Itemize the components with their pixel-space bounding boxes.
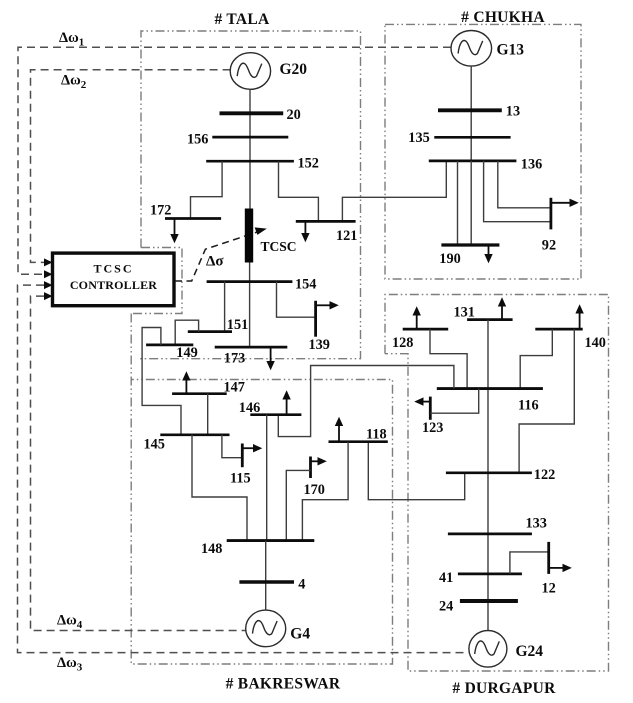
bus 154 xyxy=(207,280,293,283)
svg-text:115: 115 xyxy=(230,470,251,486)
load arrow at bus 92 xyxy=(551,199,579,207)
wire bus149 to bus145 inter-area xyxy=(142,328,181,435)
svg-text:G20: G20 xyxy=(280,61,308,78)
wire bus152 to bus172 xyxy=(191,161,223,218)
wire bus118 to bus122 inter-area xyxy=(368,442,464,500)
wire bus146 to bus148 xyxy=(266,415,268,541)
load arrow at bus 190 xyxy=(484,245,492,263)
svg-text:# CHUKHA: # CHUKHA xyxy=(461,9,545,26)
net Δω3 dashed loop: G24 to controller input 3 xyxy=(18,285,470,652)
svg-text:# DURGAPUR: # DURGAPUR xyxy=(452,680,556,697)
bus 190 xyxy=(441,243,499,246)
bus 116 xyxy=(437,387,543,390)
svg-text:# TALA: # TALA xyxy=(214,11,270,28)
wire bus149 to bus151 staircase xyxy=(175,320,198,345)
bus 118 xyxy=(329,440,388,443)
svg-text:128: 128 xyxy=(392,335,413,351)
wire bus118 to bus148 xyxy=(302,442,348,541)
svg-text:156: 156 xyxy=(187,131,208,147)
wire bus136 to bus92 (circuit 2) xyxy=(498,161,550,208)
bus 128 xyxy=(403,328,449,331)
svg-text:149: 149 xyxy=(176,345,197,361)
wire TCSC to bus 154 and bus 173 xyxy=(249,263,251,348)
net Δσ dashed control output to TCSC xyxy=(175,231,259,281)
bus 20 xyxy=(220,111,284,115)
wire bus136 to bus190 (circuit 1) xyxy=(457,161,459,245)
TCSC series capacitor bar xyxy=(245,209,253,263)
gen arrow up at bus 147 xyxy=(182,371,190,394)
bus 13 xyxy=(438,108,502,112)
load arrow at bus 121 xyxy=(301,221,309,242)
svg-text:131: 131 xyxy=(454,304,475,320)
wire bus145 to bus148 xyxy=(192,435,247,541)
svg-text:145: 145 xyxy=(144,436,165,452)
svg-text:190: 190 xyxy=(439,251,460,267)
bus 135 xyxy=(434,136,510,139)
svg-text:G4: G4 xyxy=(290,625,310,642)
bus 139 (load bar) xyxy=(314,301,317,337)
svg-text:20: 20 xyxy=(287,107,301,123)
svg-text:133: 133 xyxy=(526,515,547,531)
svg-text:G13: G13 xyxy=(497,42,525,59)
load arrow at bus 123 (points left) xyxy=(414,397,430,405)
bus 170 (load bar) xyxy=(309,457,312,479)
bus 147 xyxy=(172,392,227,395)
bus 173 xyxy=(215,346,288,349)
generator G4 xyxy=(246,610,286,647)
bus 121 xyxy=(296,220,356,223)
svg-text:152: 152 xyxy=(298,155,319,171)
svg-text:122: 122 xyxy=(534,467,555,483)
svg-text:135: 135 xyxy=(408,130,429,146)
wire bus154 to bus151 xyxy=(224,282,226,332)
wire bus147 to bus145 xyxy=(207,394,209,435)
bus 92 (load bar) xyxy=(550,198,553,230)
controller input arrowhead 4 xyxy=(44,292,53,300)
svg-text:172: 172 xyxy=(150,203,171,219)
svg-text:TCSC: TCSC xyxy=(93,262,133,276)
area box TALA (dash-dot-dot border with jog around controller) xyxy=(131,31,360,359)
net Δω2 dashed loop: G20 to controller input 1 xyxy=(31,70,231,263)
bus 131 xyxy=(467,318,512,321)
wire bus140 to bus116 xyxy=(520,329,552,389)
svg-text:146: 146 xyxy=(239,400,260,416)
load arrow at bus 139 xyxy=(316,301,339,309)
Δσ arrowhead at TCSC xyxy=(255,227,267,235)
load arrow at bus 12 xyxy=(549,564,572,572)
gen arrow up at bus 131 xyxy=(498,297,506,319)
wire bus152 to bus121 xyxy=(279,161,319,221)
net Δω4 dashed loop: G4 to controller input 4 xyxy=(31,296,246,630)
controller input arrowhead 3 xyxy=(44,281,53,289)
svg-text:12: 12 xyxy=(542,581,556,597)
bus 151 xyxy=(188,330,232,333)
wire bus128 to bus116 xyxy=(430,329,467,389)
controller input arrowhead 2 xyxy=(44,270,53,278)
svg-text:41: 41 xyxy=(439,570,453,586)
wire bus121 to bus136 interconnect xyxy=(342,161,446,222)
bus 133 xyxy=(448,533,532,536)
load arrow at bus 170 xyxy=(311,457,327,465)
svg-text:139: 139 xyxy=(309,337,330,353)
wire bus170 to bus148 xyxy=(286,470,310,540)
bus 156 xyxy=(212,136,288,139)
wire bus131 through 116,122,133,41,24 to G24 xyxy=(487,320,489,631)
wire bus148 to bus4 to G4 xyxy=(265,541,267,611)
svg-text:147: 147 xyxy=(224,379,245,395)
svg-text:Δσ: Δσ xyxy=(206,254,224,270)
wire bus146 to bus116 inter-area xyxy=(278,366,454,437)
generator G13 xyxy=(451,31,492,67)
wire bus140 to bus122 xyxy=(519,329,574,473)
svg-text:24: 24 xyxy=(439,598,453,614)
bus 140 xyxy=(535,328,582,331)
gen arrow up at bus 140 xyxy=(575,304,583,329)
net Δω1 dashed loop: G13 to controller input 2 xyxy=(18,47,451,274)
bus 4 xyxy=(239,580,294,584)
bus 41 xyxy=(458,573,522,576)
svg-text:TCSC: TCSC xyxy=(261,239,297,254)
load arrow at bus 173 xyxy=(266,347,274,370)
svg-text:170: 170 xyxy=(304,482,325,498)
generator G24 xyxy=(469,631,507,668)
svg-text:CONTROLLER: CONTROLLER xyxy=(70,278,157,292)
TCSC controller box U1 xyxy=(53,253,175,306)
svg-text:173: 173 xyxy=(224,350,245,366)
wire bus145 to bus115 xyxy=(222,435,241,458)
svg-text:121: 121 xyxy=(336,228,357,244)
svg-text:154: 154 xyxy=(295,276,316,292)
bus 123 (load bar) xyxy=(429,397,432,420)
svg-text:13: 13 xyxy=(506,103,520,119)
svg-text:148: 148 xyxy=(201,541,222,557)
controller input arrowhead 1 xyxy=(44,258,53,266)
svg-text:140: 140 xyxy=(585,335,606,351)
gen arrow up at bus 118 xyxy=(335,417,343,442)
area box CHUKHA xyxy=(385,24,581,279)
svg-text:151: 151 xyxy=(227,317,248,333)
wire G13 to buses 13-135-136 xyxy=(470,66,472,161)
area box BAKRESWAR xyxy=(131,314,392,665)
bus 122 xyxy=(446,471,532,474)
bus 172 xyxy=(165,217,221,220)
bus 148 xyxy=(227,539,315,542)
bus 115 (load bar) xyxy=(241,444,244,468)
wire bus136 to bus92 (circuit 1) xyxy=(484,161,550,222)
svg-text:118: 118 xyxy=(366,426,387,442)
bus 149 xyxy=(146,344,193,347)
bus 24 xyxy=(460,599,518,603)
svg-text:92: 92 xyxy=(542,237,556,253)
load arrow at bus 115 xyxy=(242,444,262,452)
load arrow at bus 172 xyxy=(170,219,178,244)
svg-text:# BAKRESWAR: # BAKRESWAR xyxy=(226,676,341,693)
wire bus136 to bus190 (circuit 2) xyxy=(470,161,472,245)
svg-text:116: 116 xyxy=(518,397,539,413)
wire bus41 to bus12 xyxy=(510,552,548,574)
generator G20 xyxy=(230,53,270,90)
gen arrow up at bus 146 xyxy=(282,390,290,415)
svg-text:123: 123 xyxy=(422,420,443,436)
bus 136 xyxy=(429,160,517,163)
svg-text:136: 136 xyxy=(521,156,542,172)
gen arrow up at bus 128 xyxy=(413,306,421,329)
bus 146 xyxy=(250,413,301,416)
bus 145 xyxy=(160,433,229,436)
wire G20 to bus 20-156-152 and TCSC feeder xyxy=(249,89,251,208)
svg-text:G24: G24 xyxy=(516,643,544,660)
bus 12 (load bar) xyxy=(547,542,550,574)
bus 152 xyxy=(206,160,294,163)
area box DURGAPUR (left edge jogs at y=353.7) xyxy=(385,295,609,672)
wire bus154 to bus139 xyxy=(277,282,316,318)
svg-text:4: 4 xyxy=(298,577,305,593)
wire bus123 to bus116 xyxy=(430,389,478,414)
